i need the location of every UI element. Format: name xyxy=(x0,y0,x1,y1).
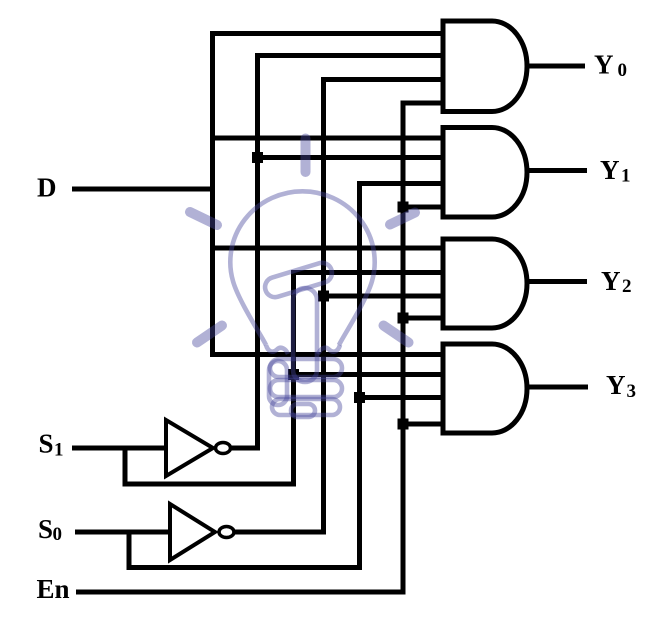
AND gate U5 (Y2) xyxy=(443,239,527,328)
base thread bar 2 xyxy=(270,380,342,397)
AND gate U6 (Y3) xyxy=(443,344,527,433)
wire D net: gate1 in1, vertical, gate4 in1 xyxy=(213,34,444,355)
bulb neck wave left xyxy=(266,345,288,354)
wire D to gate2 in1 xyxy=(213,136,444,141)
T crossbar xyxy=(263,260,335,299)
svg-text:0: 0 xyxy=(618,60,628,81)
wire S0 to gate4 in3 xyxy=(360,395,444,400)
svg-text:1: 1 xyxy=(54,440,64,461)
ray upper-right xyxy=(390,213,415,225)
svg-text:Y: Y xyxy=(606,370,626,400)
watermark light bulb logo (semi-transparent, over circuit) xyxy=(230,191,374,417)
ray lower-right xyxy=(384,326,409,343)
svg-text:D: D xyxy=(37,173,57,203)
svg-text:Y: Y xyxy=(594,50,614,80)
wire S1' net: gate1 in2, vertical to inverter U1 output xyxy=(231,56,443,449)
AND gates xyxy=(443,21,527,433)
svg-text:Y: Y xyxy=(601,266,621,296)
base left cap xyxy=(269,361,287,405)
node En / gate4 in4 xyxy=(398,419,409,430)
junction dots xyxy=(252,152,409,430)
wire En: input line, vertical, gate1 in4 xyxy=(76,103,443,592)
AND gate U3 (Y0) xyxy=(443,21,527,112)
svg-text:S: S xyxy=(38,514,53,544)
node S1' / gate2 in2 xyxy=(252,152,263,163)
wire S0 input xyxy=(75,530,170,535)
bulb neck wave right xyxy=(318,345,340,354)
ray lower-left xyxy=(197,326,222,343)
wire S1 branch: down, right, up to gate3 in2 xyxy=(125,273,443,485)
node En / gate3 in4 xyxy=(398,313,409,324)
wire Y2 output xyxy=(528,279,587,284)
wire S1' to gate2 in2 xyxy=(258,155,444,160)
wire Y3 output xyxy=(528,385,588,390)
ray upper-left xyxy=(190,212,217,225)
wire S1 input xyxy=(72,446,166,451)
base thread bar 1 xyxy=(270,359,342,377)
wire En to gate3 in4 xyxy=(403,316,443,321)
wire En to gate4 in4 xyxy=(403,422,443,427)
node S0 / gate4 in3 xyxy=(354,392,365,403)
wire D to gate3 in1 xyxy=(213,246,444,251)
ray top xyxy=(301,139,311,173)
node S1 / gate4 in2 xyxy=(288,369,299,380)
svg-text:En: En xyxy=(37,574,70,604)
svg-text:0: 0 xyxy=(53,524,63,545)
wire En to gate2 in4 xyxy=(403,205,443,210)
svg-text:2: 2 xyxy=(622,276,632,297)
wire Y0 output xyxy=(527,64,585,69)
base bottom tip xyxy=(291,404,315,417)
wire D input xyxy=(72,187,213,192)
node S0' / gate3 in3 xyxy=(318,291,329,302)
wire S0 branch: down, right, up to gate2 in3 xyxy=(129,184,443,568)
base thread bar 3 xyxy=(272,399,340,415)
wire S1 to gate4 in2 xyxy=(294,372,444,377)
wire Y1 output xyxy=(527,168,587,173)
svg-text:S: S xyxy=(39,428,54,458)
inverter U2 (S0) xyxy=(170,504,234,560)
T stem xyxy=(293,288,317,382)
wire S0' to gate3 in3 xyxy=(324,294,444,299)
svg-text:3: 3 xyxy=(627,381,637,402)
svg-text:1: 1 xyxy=(621,166,631,187)
wire S0' net: gate1 in3, vertical to inverter U2 output xyxy=(235,80,443,533)
node En / gate2 in4 xyxy=(398,202,409,213)
AND gate U4 (Y1) xyxy=(443,128,527,218)
svg-text:Y: Y xyxy=(600,155,620,185)
bulb glass outline (open bottom with tails) xyxy=(230,191,374,345)
inverter U1 (S1) xyxy=(166,420,231,476)
